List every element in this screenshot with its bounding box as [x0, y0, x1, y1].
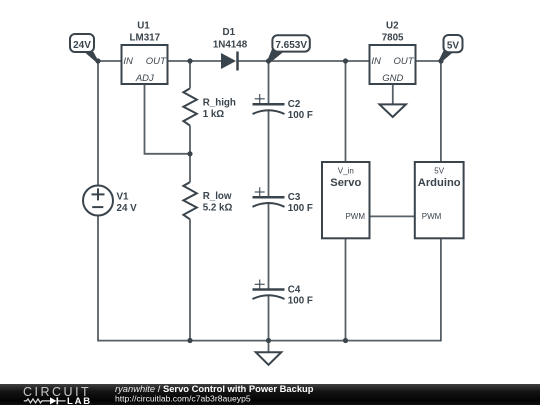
- junction dot bus at R_low: [187, 338, 192, 343]
- wire U2 OUT to node 5V: [416, 60, 442, 62]
- svg-text:24V: 24V: [73, 40, 91, 51]
- capacitor C3: [253, 187, 313, 214]
- svg-text:100 F: 100 F: [288, 295, 313, 306]
- svg-text:C3: C3: [288, 192, 301, 203]
- ground at U2 GND: [380, 84, 406, 117]
- node label 5V: [439, 35, 463, 62]
- wire rail to Servo top: [345, 61, 347, 162]
- svg-text:7.653V: 7.653V: [275, 40, 307, 51]
- svg-text:PWM: PWM: [345, 212, 365, 221]
- wire Arduino bottom to bus: [440, 238, 442, 341]
- svg-text:C4: C4: [288, 285, 301, 296]
- wire C3 to C4: [268, 203, 270, 290]
- wire ground bus: [98, 340, 441, 342]
- svg-text:R_high: R_high: [203, 97, 236, 108]
- ground at bus: [256, 341, 282, 365]
- footer bar: [0, 384, 540, 405]
- svg-text:D1: D1: [223, 27, 236, 38]
- svg-text:5V: 5V: [434, 166, 444, 175]
- svg-text:http://circuitlab.com/c7ab3r8a: http://circuitlab.com/c7ab3r8aueyp5: [115, 393, 251, 403]
- svg-text:R_low: R_low: [203, 191, 232, 202]
- wire U1 OUT to D1 anode: [168, 60, 222, 62]
- svg-text:U2: U2: [386, 21, 399, 32]
- svg-text:24 V: 24 V: [117, 203, 138, 214]
- regulator U1 LM317: [122, 21, 168, 85]
- svg-text:V1: V1: [117, 192, 130, 203]
- svg-text:OUT: OUT: [146, 56, 167, 67]
- junction dot bus at Servo: [343, 338, 348, 343]
- svg-text:OUT: OUT: [394, 56, 415, 67]
- svg-text:ADJ: ADJ: [135, 73, 154, 84]
- svg-text:LM317: LM317: [130, 32, 161, 43]
- Servo box: [322, 162, 370, 238]
- wire main rail left: [98, 60, 122, 62]
- wire Servo bottom to bus: [345, 238, 347, 340]
- voltage source V1: [83, 186, 137, 216]
- Arduino box: [415, 162, 464, 238]
- wire node 7.653V to C2: [268, 61, 270, 104]
- wire R_low to bus: [189, 219, 191, 340]
- footer logo CIRCUIT LAB: [23, 385, 92, 405]
- svg-text:V_in: V_in: [338, 166, 354, 175]
- junction dot divider node: [187, 151, 192, 156]
- capacitor C4: [253, 280, 313, 307]
- svg-text:100 F: 100 F: [288, 203, 313, 214]
- svg-text:PWM: PWM: [422, 212, 442, 221]
- wire C2 to C3: [268, 110, 270, 197]
- node label 24V: [70, 34, 99, 61]
- footer title text: [115, 383, 314, 403]
- svg-text:Arduino: Arduino: [418, 177, 461, 189]
- junction dot bus at ground: [266, 338, 271, 343]
- wire ADJ to divider node: [145, 84, 191, 154]
- svg-text:Servo: Servo: [330, 177, 361, 189]
- diode D1: [213, 27, 248, 71]
- svg-text:5.2 kΩ: 5.2 kΩ: [203, 203, 233, 214]
- wire C4 to bus: [268, 296, 270, 341]
- resistor R_low: [183, 182, 232, 219]
- wire node 5V to Arduino top: [440, 61, 442, 162]
- wire D1 cathode to node 7.653V: [238, 60, 269, 62]
- wire V1 minus to ground bus: [97, 216, 99, 342]
- junction dot rail at 24V: [95, 58, 100, 63]
- svg-text:100 F: 100 F: [288, 110, 313, 121]
- svg-text:U1: U1: [137, 21, 150, 32]
- svg-text:7805: 7805: [382, 32, 404, 43]
- svg-text:1 kΩ: 1 kΩ: [203, 109, 225, 120]
- junction dot rail at 7.653V: [266, 58, 271, 63]
- wire rail to R_high: [189, 61, 191, 88]
- svg-text:1N4148: 1N4148: [213, 39, 248, 50]
- junction dot rail at Servo: [343, 58, 348, 63]
- resistor R_high: [183, 88, 236, 125]
- wire node 7.653V to U2 IN: [269, 60, 370, 62]
- svg-text:5V: 5V: [447, 40, 460, 51]
- node label 7.653V: [267, 35, 310, 61]
- junction dot rail at 5V: [438, 58, 443, 63]
- regulator U2 7805: [370, 21, 416, 85]
- wire 24V rail down to V1: [97, 61, 99, 186]
- svg-text:IN: IN: [371, 56, 381, 67]
- wire R_high to divider node: [189, 126, 191, 154]
- svg-text:IN: IN: [123, 56, 133, 67]
- svg-text:C2: C2: [288, 99, 301, 110]
- junction dot rail at R_high: [187, 58, 192, 63]
- svg-text:GND: GND: [382, 73, 403, 84]
- wire divider node to R_low: [189, 154, 191, 182]
- wire PWM Servo to Arduino: [370, 215, 415, 217]
- svg-text:LAB: LAB: [67, 396, 92, 405]
- capacitor C2: [253, 94, 313, 121]
